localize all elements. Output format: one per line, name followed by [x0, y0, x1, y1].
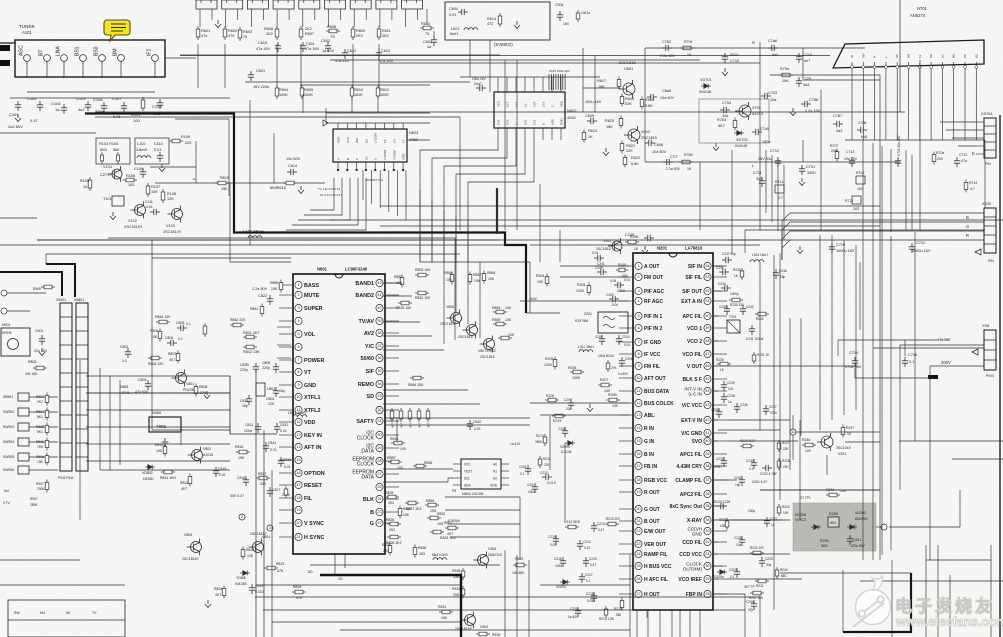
wire: [249, 210, 251, 245]
wire: [549, 416, 551, 470]
svg-text:0.1: 0.1: [586, 579, 591, 583]
switch SW903: [18, 423, 29, 431]
wire pin: [874, 62, 876, 66]
resistor: [300, 85, 304, 99]
wire: [845, 441, 880, 443]
wire: [528, 560, 530, 637]
N201 pin 23 VER OUT: [635, 540, 642, 547]
wire N602 bundle: [432, 140, 507, 262]
svg-text:R853 10K: R853 10K: [415, 268, 431, 272]
svg-text:SIF IN: SIF IN: [688, 264, 703, 270]
wire pin stub: [365, 162, 367, 170]
wire pin stub: [384, 123, 386, 129]
wire pin stub: [619, 327, 632, 329]
N201 pin 10 AFT OUT: [635, 374, 642, 381]
capacitor: [542, 474, 552, 480]
svg-text:SW: SW: [14, 611, 20, 615]
wire pin stub: [393, 123, 395, 129]
svg-text:SD: SD: [367, 394, 375, 400]
wire switch: [29, 456, 58, 458]
svg-text:C2717: C2717: [100, 173, 111, 177]
resistor: [410, 376, 424, 380]
N201 pin 41 V/C GND: [704, 429, 711, 436]
svg-text:SW902: SW902: [3, 410, 14, 414]
svg-text:R908: R908: [33, 287, 41, 291]
capacitor C110: [157, 152, 163, 162]
svg-text:N306: N306: [152, 411, 161, 415]
wire: [496, 188, 498, 234]
capacitor: [177, 325, 187, 331]
switch SW905: [18, 453, 29, 461]
svg-text:C250: C250: [719, 305, 727, 309]
wire pin stub: [619, 565, 632, 567]
wire switch: [29, 426, 58, 428]
capacitor: [267, 487, 273, 497]
wire: [773, 255, 775, 610]
svg-text:R851 10K: R851 10K: [415, 296, 431, 300]
wire: [713, 479, 737, 481]
svg-text:R813: R813: [155, 443, 163, 447]
wire pin drop: [964, 69, 966, 141]
svg-text:R70a: R70a: [780, 67, 790, 71]
svg-text:1K5: 1K5: [419, 552, 425, 556]
svg-text:R210: R210: [536, 434, 544, 438]
resistor: [493, 310, 507, 314]
wire pin stub: [279, 459, 292, 461]
svg-text:12: 12: [296, 420, 300, 424]
wire pin stub: [346, 123, 348, 129]
resistor: [543, 434, 547, 446]
wire: [946, 129, 976, 131]
svg-text:2SC1815Y: 2SC1815Y: [124, 225, 143, 229]
svg-text:H SYNC: H SYNC: [304, 535, 324, 541]
svg-text:NU: NU: [40, 611, 46, 615]
wire rail over N601: [326, 122, 430, 124]
wire pin stub: [515, 77, 517, 92]
svg-text:R814: R814: [160, 476, 168, 480]
svg-text:C6a7: C6a7: [474, 82, 482, 86]
wire pin stub: [714, 440, 727, 442]
svg-text:V/C GND: V/C GND: [681, 431, 702, 437]
capacitor: [167, 340, 177, 346]
wire: [540, 414, 629, 416]
N201 pin 51 EXT A IN: [704, 297, 711, 304]
svg-text:C716: C716: [908, 353, 917, 357]
svg-text:R904: R904: [36, 410, 44, 414]
resistor: [326, 29, 340, 33]
svg-text:45: 45: [705, 377, 709, 381]
svg-text:C244: C244: [718, 282, 726, 286]
wire: [255, 596, 630, 598]
resistor: [439, 610, 453, 614]
tuner pin BS1: [80, 55, 87, 62]
wire: [86, 392, 230, 394]
svg-text:C816: C816: [237, 476, 245, 480]
svg-text:R236: R236: [716, 358, 724, 362]
wire pin stub: [279, 396, 292, 398]
svg-text:E: E: [542, 123, 546, 125]
wire conn stub: [976, 129, 984, 131]
N201 pin 22 E/W OUT: [635, 527, 642, 534]
svg-text:R219: R219: [553, 419, 561, 423]
svg-text:0.01: 0.01: [449, 13, 456, 17]
svg-text:47K: 47K: [277, 569, 284, 573]
N201 pin 13 ABL: [635, 411, 642, 418]
wire: [100, 469, 230, 471]
svg-text:2SC1015: 2SC1015: [836, 446, 851, 450]
N201 pin 39 APC1 FIL: [704, 450, 711, 457]
N201 pin 44 INT-V IN S-C IN: [704, 387, 711, 394]
wire: [377, 96, 379, 113]
svg-text:1Y3: 1Y3: [542, 101, 546, 107]
N201 pin 50 APC FIL: [704, 312, 711, 319]
transistor: [735, 102, 751, 120]
capacitor: [645, 140, 655, 146]
crystal T201: [727, 320, 740, 333]
wire: [0, 244, 505, 246]
resistor: [264, 566, 278, 570]
svg-text:23: 23: [636, 542, 640, 546]
svg-text:VCO 2: VCO 2: [687, 339, 702, 345]
wire: [582, 48, 584, 112]
wire: [713, 541, 718, 543]
svg-text:V601: V601: [624, 66, 634, 71]
svg-text:C225: C225: [765, 557, 773, 561]
wire pin stub: [386, 498, 399, 500]
IC N306 7805: [149, 417, 181, 432]
wire: [151, 240, 153, 430]
N801 pin 27 EEPROM DATA: [376, 470, 383, 477]
capacitor: [909, 243, 915, 253]
svg-text:2K7: 2K7: [37, 400, 43, 404]
wire: [837, 340, 839, 356]
ground: [722, 68, 728, 76]
wire: [340, 629, 630, 631]
svg-text:470: 470: [228, 34, 234, 38]
svg-text:10K: 10K: [505, 318, 512, 322]
wire pin stub: [279, 421, 292, 423]
svg-text:C214: C214: [583, 540, 591, 544]
wire: [855, 377, 930, 379]
svg-text:42: 42: [705, 418, 709, 422]
svg-text:R854: R854: [492, 306, 500, 310]
svg-text:C203: C203: [617, 289, 625, 293]
resistor: [625, 240, 639, 244]
wire: [504, 550, 506, 637]
resistor: [725, 518, 729, 530]
resistor: [163, 444, 167, 457]
wire switch: [29, 469, 58, 471]
ground: [162, 438, 169, 446]
wire: [380, 225, 880, 227]
svg-text:R220 C228: R220 C228: [714, 500, 730, 504]
svg-text:R619: R619: [645, 98, 654, 102]
wire pin: [919, 62, 921, 66]
svg-text:C224: C224: [729, 568, 737, 572]
wire pin stub: [619, 508, 632, 510]
svg-text:R613: R613: [421, 22, 430, 26]
svg-text:0.01: 0.01: [284, 465, 291, 469]
wire RGB drop: [782, 240, 790, 260]
svg-text:28: 28: [377, 459, 381, 463]
svg-text:BUS-BUTT-LH: BUS-BUTT-LH: [366, 178, 383, 182]
wire pin stub: [524, 128, 526, 140]
svg-text:V806: V806: [446, 305, 454, 309]
svg-text:15p: 15p: [735, 483, 741, 487]
svg-text:7: 7: [637, 340, 639, 344]
wire: [872, 232, 874, 560]
svg-text:AFT IN: AFT IN: [304, 445, 321, 451]
svg-text:Heater: Heater: [938, 337, 951, 342]
capacitor: [799, 165, 805, 175]
svg-text:1: 1: [297, 283, 299, 287]
resistor: [777, 504, 781, 516]
svg-text:YD8I5: YD8I5: [236, 576, 246, 580]
svg-text:SDA: SDA: [464, 484, 471, 488]
svg-text:R812 13K: R812 13K: [243, 350, 260, 354]
wire pin: [885, 62, 887, 66]
capacitor: [591, 592, 597, 602]
wire pin stub: [533, 77, 535, 92]
svg-text:0.04: 0.04: [610, 279, 616, 283]
wire stub: [453, 484, 461, 486]
wire: [647, 611, 649, 637]
capacitor: [796, 53, 802, 63]
resistor: [387, 522, 401, 526]
wire pin stub: [714, 419, 727, 421]
resistor: [230, 323, 244, 327]
svg-text:C218: C218: [586, 592, 594, 596]
svg-text:C818: C818: [283, 458, 291, 462]
svg-text:17: 17: [636, 464, 640, 468]
resistor: [623, 155, 627, 168]
wire: [727, 365, 858, 367]
capacitor: [833, 121, 843, 127]
wire: [383, 282, 402, 284]
wire: [263, 430, 265, 637]
svg-text:10: 10: [296, 395, 300, 399]
svg-text:13: 13: [296, 433, 300, 437]
capacitor: [575, 607, 581, 617]
svg-text:VDD: VDD: [402, 153, 406, 160]
capacitor: [609, 296, 619, 302]
svg-text:AV: 0.12 0.1V 5 0.1: AV: 0.12 0.1V 5 0.1: [320, 193, 343, 197]
wire pin stub: [619, 440, 632, 442]
svg-text:V802: V802: [203, 447, 211, 451]
resistor: [450, 272, 454, 285]
capacitor: [583, 557, 589, 567]
svg-text:2K2: 2K2: [305, 27, 312, 31]
wire row bus3: [245, 81, 470, 83]
svg-text:TV: 1.42 3.3V 0 3.3: TV: 1.42 3.3V 0 3.3: [318, 187, 341, 191]
svg-text:22u 16V: 22u 16V: [34, 349, 48, 353]
svg-text:TV/AV: TV/AV: [359, 319, 375, 325]
wire pin stub: [551, 77, 553, 92]
svg-text:R824: R824: [214, 587, 222, 591]
wire can leg: [237, 9, 239, 20]
arrow: [975, 249, 981, 255]
svg-text:BLK S F: BLK S F: [683, 377, 702, 383]
svg-text:C212: C212: [540, 471, 548, 475]
svg-text:R246: R246: [802, 438, 810, 442]
transistor: [463, 322, 478, 339]
svg-text:LC86F3248: LC86F3248: [345, 267, 368, 272]
wire key bundle: [230, 376, 277, 434]
node 1: [267, 525, 273, 531]
svg-text:26: 26: [636, 577, 640, 581]
svg-text:A2: A2: [493, 477, 497, 481]
N801 pin 4: [295, 317, 302, 324]
transistor: [168, 206, 183, 223]
highlighted fault area: [793, 503, 876, 551]
capacitor: [663, 159, 673, 165]
svg-text:XS8: XS8: [982, 324, 989, 328]
svg-text:A1: A1: [493, 470, 497, 474]
svg-text:R825: R825: [293, 585, 301, 589]
capacitor: [15, 101, 21, 111]
connector XS801: [984, 330, 996, 370]
wire: [448, 523, 520, 525]
wire pin stub: [619, 578, 632, 580]
resistor: [161, 470, 175, 474]
svg-text:37: 37: [705, 478, 709, 482]
svg-text:10: 10: [636, 376, 640, 380]
svg-text:R907: R907: [36, 482, 44, 486]
wire pin stub: [714, 378, 727, 380]
N201 pin 28 FBP IN: [704, 590, 711, 597]
svg-text:R: R: [966, 233, 969, 238]
svg-text:(7): (7): [392, 139, 396, 143]
wire: [271, 470, 273, 637]
svg-text:C242: C242: [746, 305, 754, 309]
svg-text:R856: R856: [444, 271, 452, 275]
capacitor: [717, 503, 727, 509]
resistor: [750, 551, 764, 555]
wire pin stub: [279, 484, 292, 486]
wire pin stub: [279, 371, 292, 373]
svg-text:A1015: A1015: [203, 453, 213, 457]
svg-text:40: 40: [705, 439, 709, 443]
svg-text:BS1: BS1: [75, 46, 81, 56]
svg-text:C822: C822: [258, 294, 267, 298]
wire pin stub: [386, 447, 399, 449]
wire pin drop: [862, 69, 864, 141]
svg-text:39: 39: [377, 319, 381, 323]
svg-text:CLAMP FIL: CLAMP FIL: [675, 478, 702, 484]
wire: [826, 455, 828, 475]
svg-text:54: 54: [705, 264, 709, 268]
diode: [240, 571, 250, 576]
svg-text:V502: V502: [480, 625, 488, 629]
svg-text:R531: R531: [438, 605, 446, 609]
svg-text:V OUT: V OUT: [687, 364, 702, 370]
capacitor: [724, 305, 730, 315]
svg-text:R OUT: R OUT: [644, 490, 660, 496]
svg-text:BS0: BS0: [94, 46, 100, 56]
svg-text:R855: R855: [492, 318, 500, 322]
svg-text:ABL: ABL: [644, 413, 654, 419]
wire thick bottom path: [320, 575, 461, 637]
svg-text:34: 34: [377, 382, 381, 386]
wire: [325, 108, 327, 123]
wire pin stub: [533, 128, 535, 140]
svg-text:22K: 22K: [783, 447, 790, 451]
svg-text:H BUS VCC: H BUS VCC: [644, 564, 672, 570]
svg-text:1Y: 1Y: [402, 139, 406, 143]
svg-text:C202: C202: [606, 293, 614, 297]
resistor: [604, 606, 608, 618]
svg-text:R612: R612: [380, 88, 389, 92]
svg-text:28: 28: [705, 592, 709, 596]
capacitor: [274, 423, 280, 433]
wire can leg: [288, 9, 290, 20]
N201 pin 37 CLAMP FIL: [704, 476, 711, 483]
wire pin stub: [619, 543, 632, 545]
resistor: [391, 441, 405, 445]
wire: [330, 219, 1003, 221]
wire pin stub: [714, 541, 727, 543]
svg-text:C610: C610: [258, 41, 267, 45]
wire pin stub: [619, 402, 632, 404]
svg-text:(SVIDEO): (SVIDEO): [494, 42, 513, 47]
wire col: [197, 44, 199, 88]
wire pin stub: [714, 390, 727, 392]
capacitor: [773, 269, 779, 279]
wire pin stub: [279, 536, 292, 538]
svg-text:15K: 15K: [840, 489, 847, 493]
wire: [780, 572, 911, 574]
svg-text:XTFL1: XTFL1: [304, 395, 320, 401]
resistor: [241, 547, 245, 560]
svg-text:12: 12: [636, 401, 640, 405]
svg-text:PIN3 PIN4: PIN3 PIN4: [58, 476, 74, 480]
svg-text:27K: 27K: [611, 366, 618, 370]
svg-text:470n 50V: 470n 50V: [851, 544, 866, 548]
wire N701 bus: [845, 139, 985, 141]
svg-text:4K7: 4K7: [718, 124, 725, 128]
svg-text:C787: C787: [833, 114, 842, 118]
resistor: [203, 323, 207, 337]
svg-text:46: 46: [705, 364, 709, 368]
svg-text:MUTE: MUTE: [304, 293, 320, 299]
capacitor: [476, 85, 486, 91]
wire: [455, 262, 457, 312]
svg-text:1a 414: 1a 414: [510, 442, 520, 446]
wire: [150, 166, 196, 168]
svg-text:5: 5: [637, 314, 639, 318]
svg-text:CLOCK: CLOCK: [357, 461, 375, 467]
wire: [445, 509, 520, 511]
inductor L102: [137, 156, 151, 158]
svg-text:E/W OUT: E/W OUT: [644, 529, 665, 535]
svg-text:560: 560: [113, 148, 119, 152]
capacitor: [722, 257, 732, 263]
svg-text:48: 48: [705, 339, 709, 343]
wire long v: [249, 100, 251, 210]
resistor: [243, 335, 257, 339]
svg-text:R622: R622: [631, 156, 640, 160]
wire thick left L: [0, 272, 62, 296]
filter can F609: [402, 0, 423, 9]
wire row bus2: [330, 59, 700, 61]
resistor: [148, 356, 162, 360]
svg-text:K: K: [972, 151, 975, 156]
filter can F605: [299, 0, 320, 9]
wire RGB line: [790, 221, 984, 223]
capacitor: [594, 255, 604, 261]
wire pin stub: [386, 320, 399, 322]
svg-text:Z-COM: Z-COM: [374, 133, 378, 143]
